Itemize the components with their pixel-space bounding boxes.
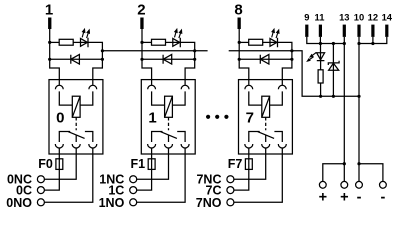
junction channel 0 input node.0 — [48, 41, 51, 44]
terminal 1C socket — [130, 187, 137, 194]
wire ++ distribution bar — [323, 164, 345, 182]
svg-text:7: 7 — [246, 110, 254, 127]
wire channel 7 row1 left — [239, 41, 249, 43]
terminal socket supply - b — [380, 181, 387, 188]
wire relay K0 NC to terminal 0NC — [44, 148, 76, 179]
svg-text:2: 2 — [137, 2, 145, 19]
power LED emission arrows — [312, 52, 316, 55]
junction rail 13 — [343, 42, 346, 45]
svg-text:F7: F7 — [228, 157, 243, 171]
relay K7 NO socket — [278, 144, 286, 148]
resistor R0 — [59, 39, 73, 45]
wire socket to coil K7 A1 — [249, 91, 262, 105]
junction return rail zener branch — [332, 95, 335, 98]
svg-text:14: 14 — [382, 12, 393, 23]
relay K0 outline — [49, 80, 103, 154]
terminal 7NO socket — [227, 199, 234, 206]
wire relay K0 NO to terminal 0NO — [44, 148, 93, 202]
wire channel 0 row1 left — [50, 41, 60, 43]
LED D7 (status indicator) — [270, 38, 278, 48]
wire fuse F7 to terminal 7C — [234, 169, 249, 190]
resistor R7 — [249, 39, 263, 45]
junction rail 10-14 — [357, 42, 360, 45]
wire LED0 to channel 0 right node — [88, 42, 102, 59]
junction return rail LED branch — [319, 95, 322, 98]
svg-text:1: 1 — [148, 110, 156, 127]
junction channel 7 right node.1 — [290, 58, 293, 61]
wire relay K1 NC to terminal 1NC — [137, 148, 169, 179]
svg-text:10: 10 — [354, 12, 364, 23]
resistor R1 — [152, 39, 166, 45]
freewheeling diode V7 — [260, 55, 269, 65]
wire channel 0 right node to coil-right pin — [93, 59, 103, 85]
relay K1 NO socket — [181, 144, 189, 148]
wire relay K7 NO to terminal 7NO — [234, 148, 283, 202]
wire relay K0 to fuse F0 — [58, 148, 60, 159]
wire relay K1 to fuse F1 — [151, 148, 153, 159]
wire socket to coil K1 A1 — [152, 91, 165, 105]
terminal 8 pin — [238, 18, 241, 30]
junction channel 7 input node.0 — [238, 41, 241, 44]
relay K1 common contact — [168, 135, 170, 142]
wire socket to coil K1 A2 — [172, 91, 185, 105]
wire channel 7 right node to coil-right pin — [282, 59, 292, 85]
relay K0 coil-right socket — [89, 85, 97, 89]
svg-text:12: 12 — [368, 12, 378, 23]
terminal 14 pin — [385, 25, 388, 37]
svg-text:1: 1 — [45, 2, 53, 19]
relay K1 NO contact bar — [177, 132, 185, 143]
wire diode V0 to channel 0 right node — [79, 58, 102, 60]
relay K1 actuator link (dashed) — [168, 117, 170, 130]
wire resistor R7 to LED7 — [263, 41, 278, 43]
wire terminal 8 to channel 7 input node — [238, 29, 240, 59]
relay K0 NC socket — [72, 144, 80, 148]
terminal 12 pin — [371, 25, 374, 37]
wire socket to coil K0 A1 — [59, 91, 72, 105]
svg-text:7NO: 7NO — [196, 196, 222, 210]
fuse F7 — [245, 159, 252, 170]
relay K0 common contact — [75, 135, 77, 142]
junction channel 0 right node.0 — [101, 49, 104, 52]
relay K1 NC contact bar — [152, 132, 163, 143]
fuse F1 — [148, 159, 155, 170]
terminal 1NO socket — [130, 199, 137, 206]
relay K7 NC socket — [262, 144, 270, 148]
terminal socket supply - a — [356, 181, 363, 188]
junction channel 0 right node.1 — [101, 58, 104, 61]
wire + rail to zener diode — [332, 44, 334, 71]
relay K7 coil-right socket — [278, 85, 286, 89]
terminal 1 pin — [48, 18, 51, 30]
terminal 13 pin — [343, 25, 346, 37]
wire terminal 14 to - rail — [359, 37, 387, 44]
svg-text:9: 9 — [304, 12, 309, 23]
wire terminal 2 to channel 1 input node — [141, 29, 143, 59]
junction channel 7 input node.1 — [238, 58, 241, 61]
wire socket to coil K7 A2 — [270, 91, 283, 105]
relay K0 NC contact bar — [59, 132, 70, 143]
wire socket to coil K0 A2 — [80, 91, 93, 105]
svg-text:8: 8 — [234, 2, 242, 19]
zener diode (protection) — [328, 61, 339, 71]
relay K0 coil-left socket — [55, 85, 63, 89]
relay K0 NO socket — [89, 144, 97, 148]
wire channel 7 input node to coil-left pin — [239, 59, 249, 85]
LED D1 emission arrows — [175, 32, 176, 37]
wire + rail to power LED — [320, 44, 322, 61]
wire zener diode to - rail — [332, 70, 334, 96]
LED D7 emission arrows — [272, 32, 273, 37]
svg-text:0NO: 0NO — [6, 196, 32, 210]
junction channel 1 input node.0 — [140, 41, 143, 44]
svg-text:+: + — [319, 190, 327, 206]
wire fuse F1 to terminal 1C — [137, 169, 152, 190]
wire channel 1 right node to coil-right pin — [185, 59, 195, 85]
relay K7 contact lever — [258, 132, 274, 139]
wire LED7 to channel 7 right node — [278, 42, 292, 59]
junction rail 9-11 — [319, 42, 322, 45]
junction channel 1 right node.1 — [193, 58, 196, 61]
svg-text:+: + — [340, 190, 348, 206]
relay K7 common socket — [245, 144, 253, 148]
wire channel 1 row1 left — [142, 41, 152, 43]
junction -- bar — [357, 162, 360, 165]
wire terminal 9 to + rail — [307, 37, 345, 44]
relay K0 coil — [72, 96, 80, 117]
wire terminal 11 to + rail / LED — [319, 37, 321, 44]
junction channel 0 input node.1 — [48, 58, 51, 61]
wire relay K7 NC to terminal 7NC — [234, 148, 266, 179]
wire power LED to resistor — [320, 61, 322, 70]
terminal socket supply + a — [319, 181, 326, 188]
ellipsis dots (channels 2..6 omitted) — [206, 115, 210, 119]
terminal socket supply + b — [341, 181, 348, 188]
fuse F0 — [56, 159, 63, 170]
wire relay K7 to fuse F7 — [248, 148, 250, 159]
terminal 7NC socket — [227, 176, 234, 183]
LED D1 (status indicator) — [173, 38, 181, 48]
junction return rail supply minus — [357, 95, 360, 98]
wire terminal 1 to channel 0 input node — [49, 29, 51, 59]
svg-text:F1: F1 — [131, 157, 146, 171]
svg-text:0: 0 — [56, 110, 64, 127]
freewheeling diode V0 — [71, 55, 80, 65]
terminal 11 pin — [319, 25, 322, 37]
relay K1 coil-right socket — [181, 85, 189, 89]
svg-text:1NO: 1NO — [99, 196, 125, 210]
junction channel 1 input node.1 — [140, 58, 143, 61]
relay K1 contact lever — [161, 132, 177, 139]
wire channel 1 input node to coil-left pin — [142, 59, 152, 85]
junction channel 7 right node.0 — [290, 49, 293, 52]
relay K7 NO contact bar — [274, 132, 282, 143]
svg-text:-: - — [380, 190, 385, 206]
relay K7 coil — [262, 96, 270, 117]
svg-text:13: 13 — [339, 12, 349, 23]
relay K7 actuator link (dashed) — [265, 117, 267, 130]
terminal 0NO socket — [37, 199, 44, 206]
LED D0 emission arrows — [82, 32, 83, 37]
wire relay K1 NO to terminal 1NO — [137, 148, 186, 202]
svg-text:F0: F0 — [38, 157, 53, 171]
wire channel 7 row2 left — [239, 58, 269, 60]
terminal 0C socket — [37, 187, 44, 194]
terminal 10 pin — [357, 25, 360, 37]
wire channel 0 input node to coil-left pin — [50, 59, 60, 85]
power LED — [317, 53, 325, 61]
terminal 9 pin — [305, 25, 308, 37]
relay K1 NC socket — [165, 144, 173, 148]
wire terminal 12 to - rail — [372, 37, 374, 44]
svg-text:-: - — [357, 190, 362, 206]
junction ++ bar — [343, 162, 346, 165]
terminal 2 pin — [140, 18, 143, 30]
LED D0 (status indicator) — [81, 38, 89, 48]
wire resistor R0 to LED0 — [73, 41, 88, 43]
junction rail 11-zener — [332, 42, 335, 45]
wire diode V1 to channel 1 right node — [172, 58, 195, 60]
relay K7 coil-left socket — [245, 85, 253, 89]
resistor (LED dropper) — [318, 70, 323, 83]
relay K0 common socket — [55, 144, 63, 148]
freewheeling diode V1 — [163, 55, 172, 65]
relay K7 NC contact bar — [249, 132, 260, 143]
wire LED1 to channel 1 right node — [180, 42, 194, 59]
svg-text:11: 11 — [315, 12, 325, 23]
wire resistor to - rail — [320, 83, 322, 96]
wire terminal 10 down to -- terminals — [358, 37, 360, 164]
relay K1 common socket — [148, 144, 156, 148]
junction rail 12 — [371, 42, 374, 45]
relay K1 coil — [165, 96, 173, 117]
relay K7 outline — [239, 80, 293, 154]
wire resistor R1 to LED1 — [166, 41, 181, 43]
wire channel 1 row2 left — [142, 58, 172, 60]
wire channel 0 row2 left — [50, 58, 80, 60]
relay K0 contact lever — [68, 132, 84, 139]
terminal 0NC socket — [37, 176, 44, 183]
wire diode V7 to channel 7 right node — [269, 58, 292, 60]
terminal 1NC socket — [130, 176, 137, 183]
relay K1 coil-left socket — [148, 85, 156, 89]
bus wire: relay-coil return rail (channels to supply section) — [102, 51, 359, 97]
relay K0 NO contact bar — [85, 132, 93, 143]
terminal 7C socket — [227, 187, 234, 194]
junction channel 1 right node.0 — [193, 49, 196, 52]
relay K0 actuator link (dashed) — [75, 117, 77, 130]
wire -- distribution bar — [359, 164, 383, 182]
wire fuse F0 to terminal 0C — [44, 169, 59, 190]
relay K1 outline — [141, 80, 195, 154]
wire terminal 13 down to ++ terminals — [343, 37, 345, 164]
relay K7 common contact — [265, 135, 267, 142]
